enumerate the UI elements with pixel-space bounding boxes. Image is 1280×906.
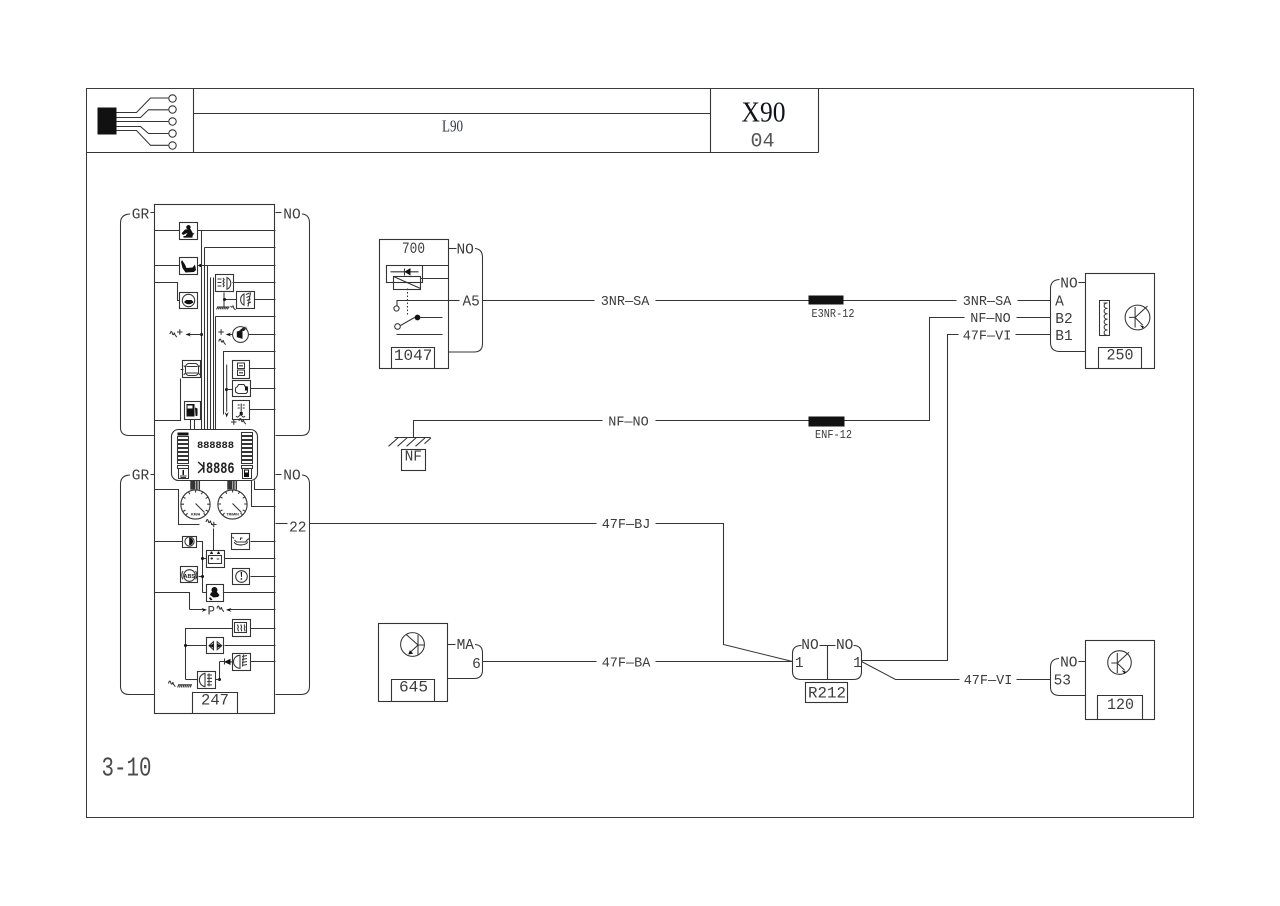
svg-text:X90: X90 xyxy=(742,98,786,129)
svg-text:3-10: 3-10 xyxy=(102,755,152,785)
ground NF stub xyxy=(414,318,1051,438)
svg-text:NF—NO: NF—NO xyxy=(608,415,649,430)
svg-text:KM/H: KM/H xyxy=(191,513,201,517)
relay contact terminal circle top xyxy=(394,306,399,311)
connector bracket GR top xyxy=(121,214,155,436)
label box R212 xyxy=(806,683,848,703)
fuel link lines xyxy=(191,420,195,430)
mileage pictogram box xyxy=(233,361,250,379)
oil pressure pictogram box xyxy=(232,534,250,550)
harness pin circle 4 xyxy=(169,130,176,137)
connector bracket (645) xyxy=(448,645,483,679)
bus line 3 xyxy=(207,266,209,430)
LCD right bar stack xyxy=(242,433,253,436)
svg-text:GR: GR xyxy=(132,207,150,223)
relay pivot dot xyxy=(415,315,421,321)
svg-text:250: 250 xyxy=(1107,347,1134,365)
component 247 cluster box xyxy=(155,205,275,714)
seat belt double pictogram box xyxy=(207,638,224,654)
battery feed path xyxy=(155,490,200,525)
svg-text:120: 120 xyxy=(1107,696,1134,714)
svg-text:1047: 1047 xyxy=(394,347,432,365)
LCD display module xyxy=(172,430,258,481)
svg-text:22: 22 xyxy=(289,521,306,537)
rear fog lamp box xyxy=(237,292,255,309)
harness wire 2 xyxy=(117,110,169,118)
label box 645 xyxy=(392,680,435,702)
bus line 2 xyxy=(204,248,206,430)
LCD right link pair xyxy=(252,481,276,507)
harness pin circle 1 xyxy=(169,95,176,102)
wire row 1 xyxy=(155,230,180,232)
svg-text:1: 1 xyxy=(853,656,862,672)
svg-text:NO: NO xyxy=(836,638,853,654)
relay contact line 2 xyxy=(397,334,443,336)
LCD left bar stack xyxy=(178,433,189,436)
page frame xyxy=(87,89,1194,818)
wire label NF-NO (right) xyxy=(965,311,1017,325)
park brake P row xyxy=(155,593,205,610)
svg-text:ENF-12: ENF-12 xyxy=(815,429,852,442)
svg-text:3NR—SA: 3NR—SA xyxy=(601,295,651,310)
wire row 5 xyxy=(255,299,276,301)
gauge feed bundle right xyxy=(228,481,237,490)
wire row 4 xyxy=(233,282,276,284)
header cell divider right xyxy=(710,89,712,153)
wire 47F-VI to pin B1 of 250 xyxy=(862,335,1051,661)
harness pin circle 5 xyxy=(169,142,176,149)
clock pictogram box xyxy=(183,537,197,548)
svg-text:888888: 888888 xyxy=(197,440,234,452)
harness wire 4 xyxy=(117,127,169,134)
harness wire 5 xyxy=(117,131,169,146)
header cell divider left xyxy=(193,89,195,153)
ground NF hatch xyxy=(395,437,431,439)
harness pin circle 3 xyxy=(169,118,176,125)
pin A5 lead xyxy=(449,300,460,302)
bus line 1 xyxy=(201,231,203,430)
svg-text:E3NR-12: E3NR-12 xyxy=(812,308,855,321)
harness pin circle 2 xyxy=(169,106,176,113)
connector tick GR top xyxy=(151,212,155,214)
svg-text:B1: B1 xyxy=(1055,329,1072,345)
relay common feed stub A5 xyxy=(397,301,449,306)
LCD trip digits xyxy=(198,462,204,473)
cluster internal ground xyxy=(178,684,192,686)
harness connector block xyxy=(98,108,117,135)
svg-text:B2: B2 xyxy=(1055,312,1072,328)
svg-text:700: 700 xyxy=(402,240,425,258)
splice ENF-12 xyxy=(809,417,845,427)
svg-text:47F—VI: 47F—VI xyxy=(963,330,1012,345)
speedometer gauge xyxy=(181,490,210,519)
connector tick NO (120) xyxy=(1079,661,1086,663)
brake warning pictogram box xyxy=(233,569,250,585)
harness wire 1 xyxy=(117,98,169,113)
svg-text:TR/MIN: TR/MIN xyxy=(226,513,239,517)
svg-text:NO: NO xyxy=(456,242,473,258)
diode to main beam xyxy=(231,661,233,663)
pictogram circle K (250) xyxy=(1125,305,1150,330)
svg-text:R212: R212 xyxy=(808,685,846,703)
svg-text:47F—VI: 47F—VI xyxy=(964,674,1013,689)
relay unit 700 box xyxy=(380,240,449,369)
dome lamp box xyxy=(180,293,198,309)
label box 250 xyxy=(1099,348,1142,369)
junction connector R212 body xyxy=(793,646,862,680)
svg-text:NO: NO xyxy=(1060,276,1077,292)
relay actuation dotted link xyxy=(407,289,409,315)
engine warning pictogram box xyxy=(233,381,251,397)
battery pictogram box xyxy=(207,551,225,568)
svg-text:NF—NO: NF—NO xyxy=(970,312,1011,327)
svg-text:3NR—SA: 3NR—SA xyxy=(963,295,1013,310)
clock-to-chain link xyxy=(196,542,203,593)
svg-text:247: 247 xyxy=(201,691,229,709)
fog lamp ground link xyxy=(224,293,237,307)
bus line 4 xyxy=(210,278,212,430)
R212 divider xyxy=(827,646,829,680)
wire 22 / 47F-BJ from cluster to R212 xyxy=(276,523,288,525)
connector tick NO top xyxy=(276,212,282,214)
fuel pictogram box xyxy=(185,402,201,420)
svg-text:NO: NO xyxy=(283,468,300,484)
title box right edge xyxy=(818,89,820,153)
svg-text:ABS: ABS xyxy=(183,574,195,580)
connector bracket NO bottom xyxy=(276,475,310,695)
relay coil loop xyxy=(387,266,423,283)
wire 47F-BA from 645 to R212 xyxy=(483,661,793,663)
svg-text:A: A xyxy=(1055,294,1064,310)
gauge feed bundle left xyxy=(191,481,200,490)
harness L90 line xyxy=(194,113,711,115)
connector tick MA (645) xyxy=(448,644,456,646)
front fog lamp box xyxy=(216,275,234,292)
wire row 3 xyxy=(155,265,180,267)
relay suppression diode xyxy=(391,271,419,273)
component 645 box xyxy=(379,624,448,702)
LCD temp icon xyxy=(179,469,189,479)
svg-text:NF: NF xyxy=(405,450,422,466)
connector bracket NO top xyxy=(276,214,310,436)
svg-text:8886: 8886 xyxy=(206,460,235,478)
wire into door/fuel group xyxy=(155,370,184,421)
svg-text:L90: L90 xyxy=(442,117,463,136)
relay coil xyxy=(394,277,421,290)
door open pictogram box xyxy=(183,361,201,378)
header row divider xyxy=(87,152,819,154)
ignition plus feed arrow left xyxy=(200,333,203,336)
svg-text:04: 04 xyxy=(750,131,774,154)
connector tick NO (250) xyxy=(1079,282,1086,284)
mini group frame xyxy=(224,352,276,415)
pictogram circle K (120) xyxy=(1108,651,1132,675)
harness wire 3 xyxy=(117,121,169,123)
connector tick NO (1047) xyxy=(449,248,457,250)
label box 120 xyxy=(1098,696,1143,720)
coolant temp pictogram box xyxy=(233,401,250,420)
svg-text:NO: NO xyxy=(283,207,300,223)
wire row 6 xyxy=(216,316,276,318)
splice E3NR-12 xyxy=(809,296,844,305)
wire 3NR-SA from 1047 to 250 xyxy=(483,300,1051,302)
svg-text:47F—BJ: 47F—BJ xyxy=(602,518,651,533)
main beam pictogram box xyxy=(233,654,251,671)
group feed arrow xyxy=(226,365,228,412)
svg-text:645: 645 xyxy=(399,679,428,697)
relay contact terminal circle bottom xyxy=(395,324,401,330)
LCD fuel icon xyxy=(243,469,252,479)
label box 247 xyxy=(193,693,238,714)
wire 47F-VI from R212 to 120 xyxy=(862,662,1051,680)
bus line 6 xyxy=(215,317,217,430)
wire row 2 xyxy=(205,247,276,249)
svg-text:GR: GR xyxy=(132,468,150,484)
bus line 5 xyxy=(213,278,215,430)
component 120 box xyxy=(1086,641,1155,720)
svg-text:MA: MA xyxy=(457,638,475,654)
connector bracket GR bottom xyxy=(121,475,155,695)
wire label NF-NO (left) xyxy=(603,414,656,428)
svg-text:P: P xyxy=(207,604,215,618)
tachometer gauge xyxy=(218,490,247,519)
ABS pictogram box xyxy=(181,567,198,583)
low beam pictogram box xyxy=(198,672,216,689)
component 250 box xyxy=(1086,274,1155,369)
svg-text:53: 53 xyxy=(1054,674,1071,690)
svg-text:47F—BA: 47F—BA xyxy=(602,657,652,672)
relay moving contact arm xyxy=(401,318,415,326)
connector bracket of 250 xyxy=(1051,280,1086,352)
heater element glyph (250) xyxy=(1100,301,1110,336)
wire to dome lamp xyxy=(155,283,180,301)
svg-text:A5: A5 xyxy=(462,294,479,310)
connector bracket (1047) xyxy=(449,249,483,353)
svg-text:NO: NO xyxy=(1060,656,1077,672)
relay label box 1047 xyxy=(392,348,435,369)
connector tick GR bottom xyxy=(151,474,155,476)
connector tick NO bottom xyxy=(276,474,282,476)
relay contact line 1 xyxy=(421,317,443,319)
svg-text:1: 1 xyxy=(795,656,804,672)
seat belt warning lamp box xyxy=(180,223,198,240)
seat icon box xyxy=(180,258,198,275)
turn signal pictogram xyxy=(233,327,249,343)
heated rear window pictogram box xyxy=(233,620,251,637)
svg-text:6: 6 xyxy=(472,657,481,673)
ground NF label box xyxy=(402,450,426,471)
connector bracket (120) xyxy=(1051,659,1086,696)
steering pictogram box xyxy=(207,585,224,602)
svg-text:NO: NO xyxy=(801,638,818,654)
pictogram circle K (645) xyxy=(401,633,425,657)
